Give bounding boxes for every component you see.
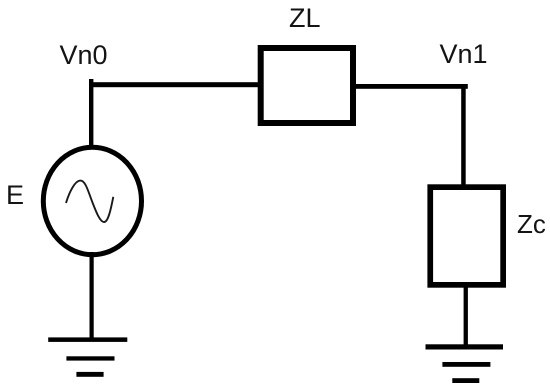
wire: Vn0 vertical stub down to source top	[89, 79, 93, 147]
impedance ZL (series box)	[261, 48, 353, 123]
svg-text:Vn1: Vn1	[440, 39, 488, 69]
wire: Vn0 to ZL left terminal	[89, 82, 258, 87]
ground left	[48, 337, 127, 376]
wire: Vn1 vertical down to Zc top	[461, 84, 466, 185]
svg-text:E: E	[6, 180, 24, 210]
AC source E	[43, 147, 141, 254]
svg-text:ZL: ZL	[289, 3, 321, 33]
svg-text:Vn0: Vn0	[60, 40, 108, 70]
svg-text:Zc: Zc	[517, 209, 546, 239]
impedance Zc (shunt box)	[430, 187, 503, 285]
wire: Zc bottom to right ground	[464, 284, 468, 347]
wire: ZL right terminal to Vn1	[356, 84, 468, 89]
wire: source bottom to left ground	[90, 252, 94, 339]
ground right	[426, 344, 504, 383]
